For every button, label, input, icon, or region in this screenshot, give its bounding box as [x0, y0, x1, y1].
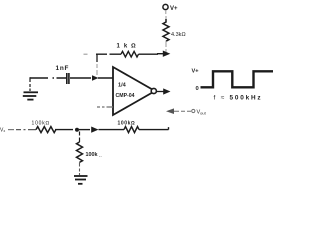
wire inverting input (dashed) — [97, 106, 113, 108]
terminal V+ — [163, 4, 178, 11]
wire to ground G1 — [29, 77, 31, 91]
op-amp U1 1/4 CMP-04 — [113, 67, 155, 115]
svg-text:1nF: 1nF — [56, 65, 70, 72]
wire R3 to node C — [55, 129, 73, 131]
svg-text:1kΩ: 1kΩ — [117, 43, 140, 49]
svg-text:CMP-04: CMP-04 — [116, 93, 135, 99]
arrow into node A — [157, 53, 163, 55]
resistor R4 100k — [118, 121, 140, 133]
node B junction — [92, 75, 99, 80]
svg-text:V₂: V₂ — [0, 128, 5, 134]
resistor R1 4.3k — [163, 19, 186, 41]
output bubble — [151, 88, 156, 93]
wire R1 bottom to node A — [165, 41, 167, 52]
wire feedback top — [96, 53, 121, 55]
wire R5 to ground G2 — [79, 163, 81, 176]
waveform Vout: square wave trace — [201, 71, 274, 87]
resistor R5 100k — [77, 142, 102, 162]
wire R4 to end — [139, 127, 169, 130]
wire node C down to R5 — [79, 132, 81, 143]
wire R2 right to arrow — [139, 53, 159, 55]
svg-text:100kΩ: 100kΩ — [118, 121, 136, 127]
ground G2 — [74, 176, 88, 184]
wire corner down to node B — [96, 54, 98, 63]
svg-text:Vout: Vout — [197, 110, 207, 116]
resistor R3 100k — [32, 121, 56, 133]
svg-text:100k: 100k — [86, 152, 98, 158]
wire feedback top (left dash) — [84, 53, 88, 55]
svg-text:4.3kΩ: 4.3kΩ — [171, 32, 186, 38]
arrow on wire to R4 — [79, 129, 90, 131]
svg-text:1/4: 1/4 — [118, 83, 127, 89]
resistor R2 1k — [117, 43, 140, 57]
ground G1 — [23, 92, 38, 99]
wire V+ to R1 — [165, 10, 167, 21]
terminal VIN — [0, 128, 14, 134]
node C junction — [75, 128, 79, 132]
label Vout with left arrow — [166, 108, 207, 115]
svg-text:V+: V+ — [170, 6, 178, 12]
svg-text:V+: V+ — [192, 69, 200, 75]
wire VIN dash-dot — [16, 129, 36, 131]
wire output with arrowhead — [157, 91, 164, 93]
svg-text:..: .. — [99, 153, 102, 159]
svg-text:f ≈ 500kHz: f ≈ 500kHz — [214, 94, 263, 101]
wire non-inverting input — [30, 77, 54, 79]
svg-text:0: 0 — [196, 86, 199, 92]
svg-text:100kΩ: 100kΩ — [32, 121, 51, 127]
capacitor C1 — [56, 65, 70, 84]
